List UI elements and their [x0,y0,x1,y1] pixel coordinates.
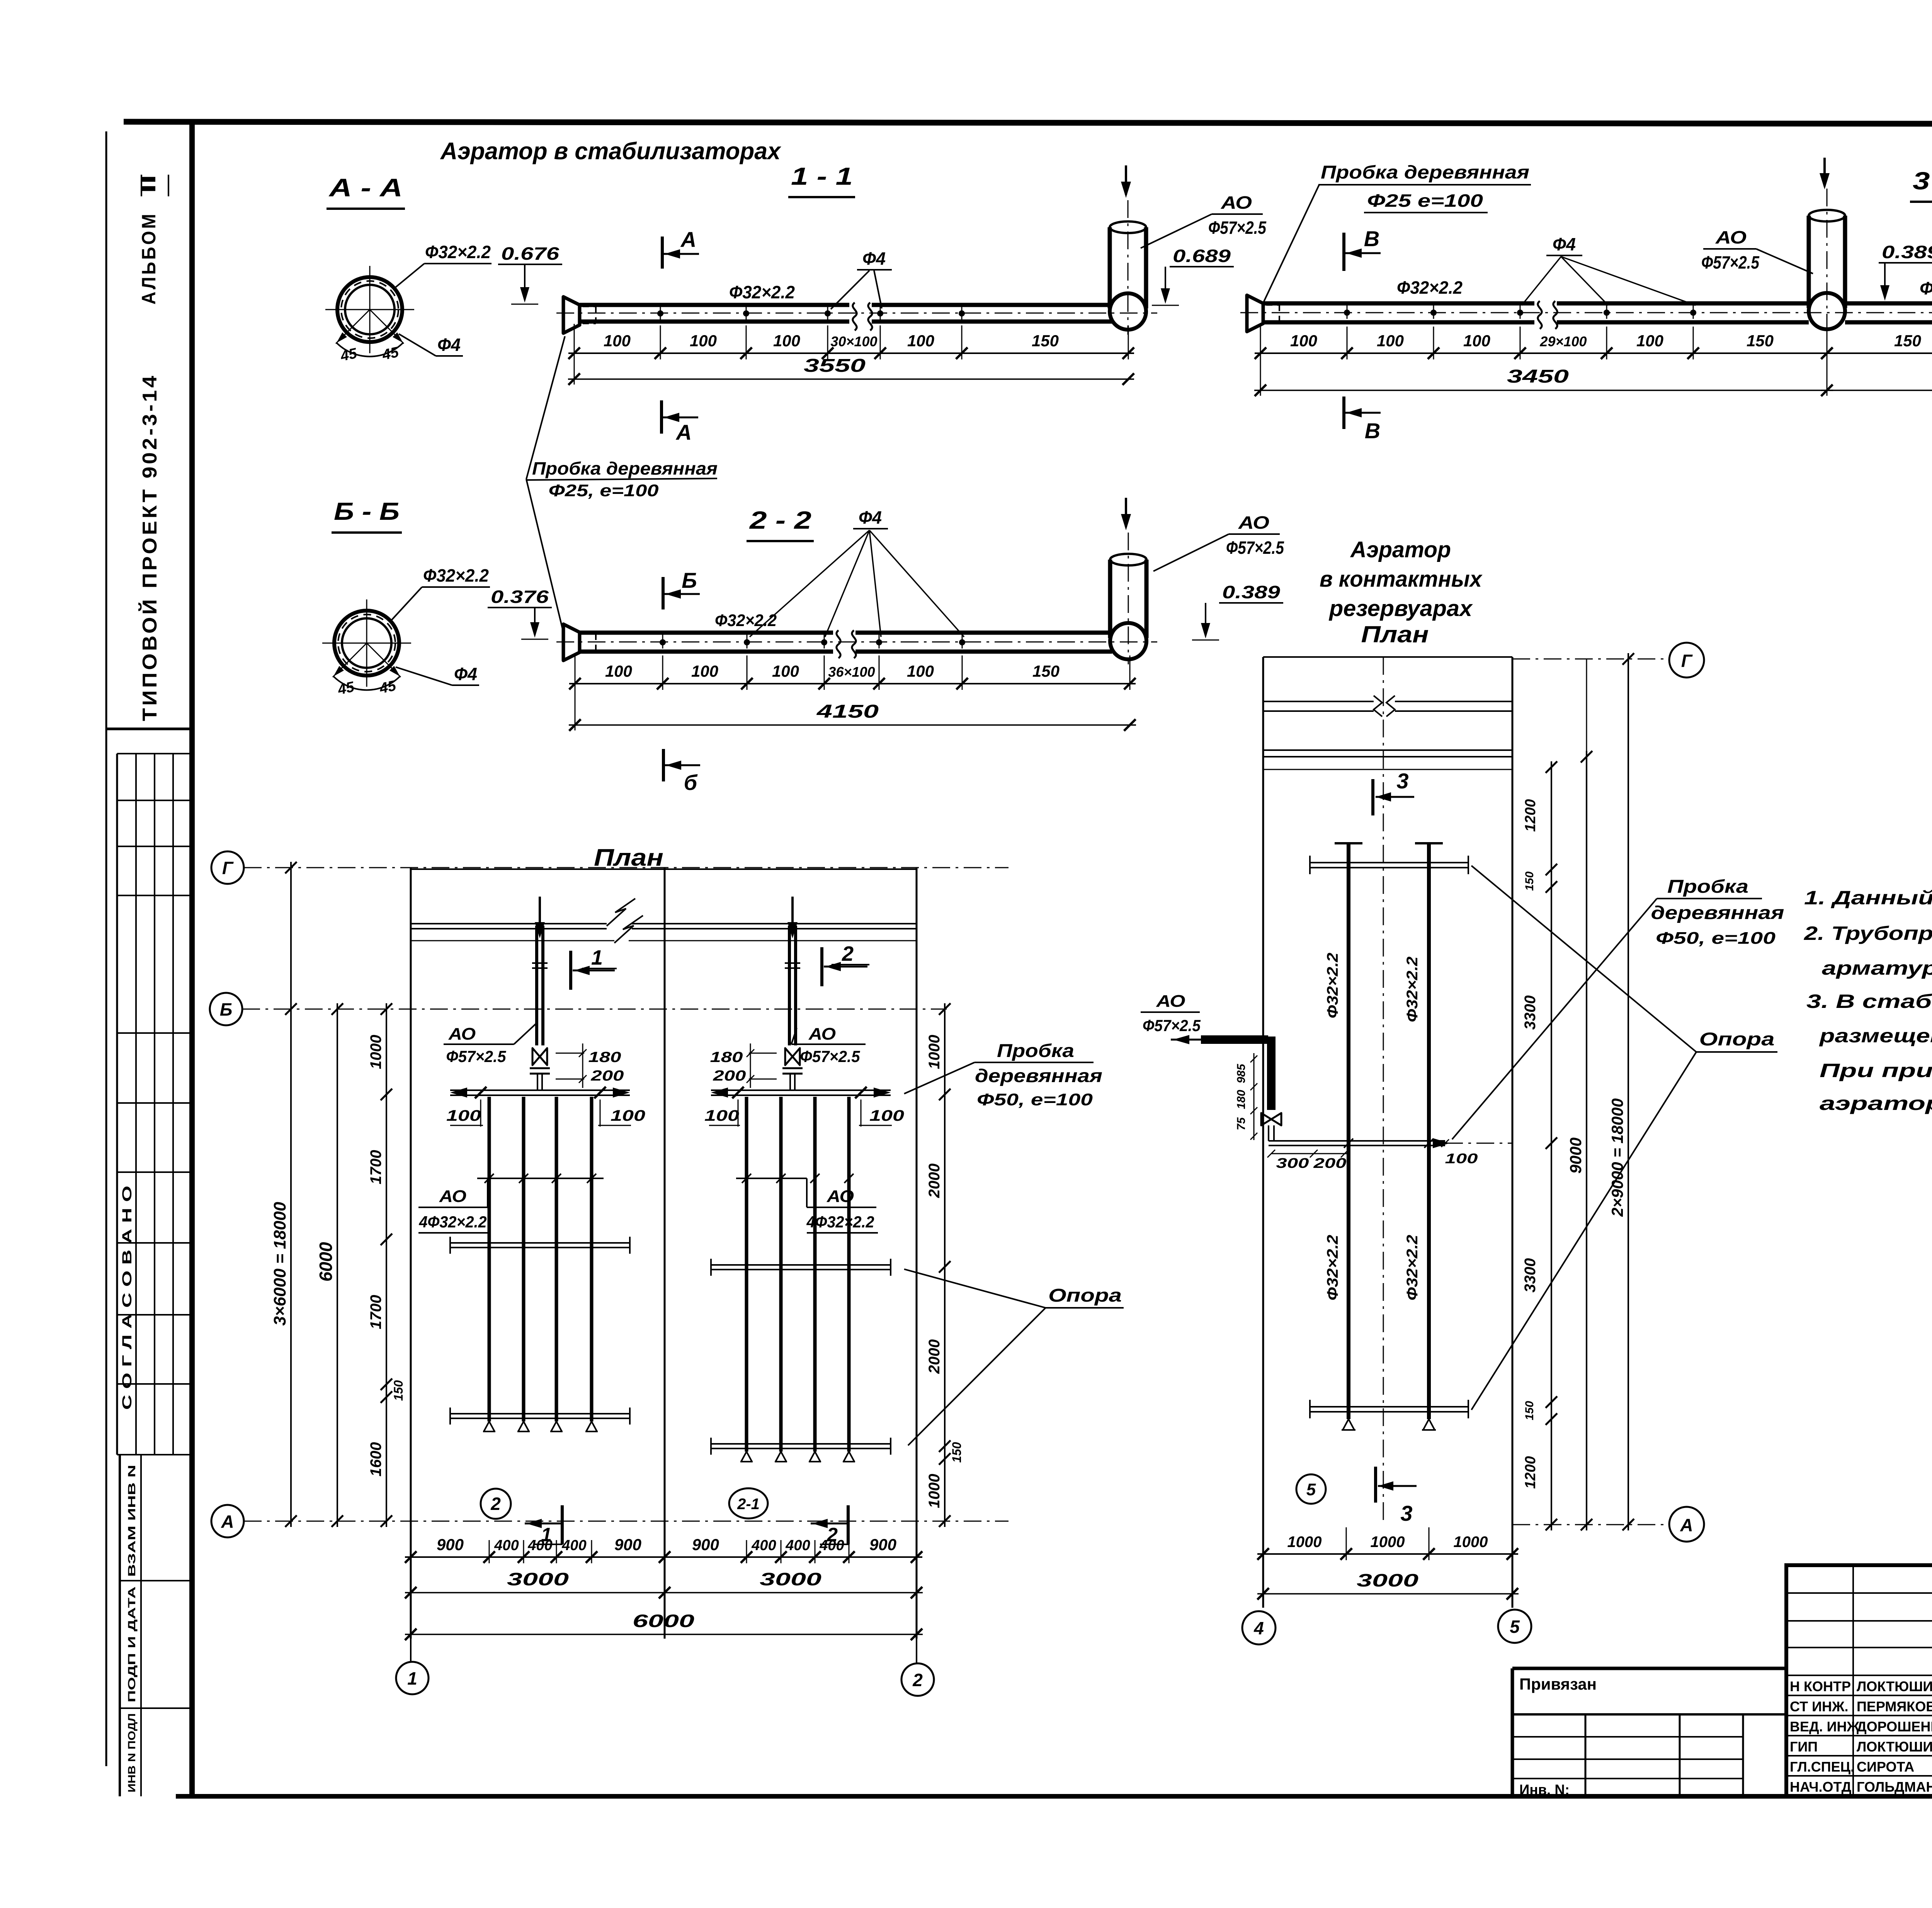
svg-text:0.689: 0.689 [1173,246,1231,266]
support bottom in plan bay [711,1443,891,1445]
air riser АО of 1-1 [1108,227,1112,308]
svg-text:2-1: 2-1 [737,1496,760,1513]
dimension 3550 of 1-1 [568,378,1134,380]
dim chain 1000-1700 left [386,1003,387,1527]
svg-text:6000: 6000 [316,1242,336,1282]
distribution pipe right plan [1269,1140,1445,1142]
svg-text:Пробка деревянная: Пробка деревянная [1321,162,1529,183]
title block signature grid [1852,1565,1854,1796]
small rotated dims 985 180 75 [1253,1053,1255,1140]
tank walls right plan [1262,657,1264,1608]
svg-text:размещение аэраторов без пр: размещение аэраторов без применения вста… [1818,1025,1932,1047]
axis line Г left plan [244,867,1009,868]
svg-text:В: В [1364,226,1379,251]
svg-text:АО: АО [808,1025,836,1043]
svg-text:0.389: 0.389 [1882,242,1932,262]
svg-text:1000: 1000 [926,1474,943,1508]
svg-text:1000: 1000 [367,1035,384,1069]
small dims 300 200 100 [1271,1153,1349,1154]
svg-text:180: 180 [588,1049,621,1065]
axis bubble А left [211,1505,244,1537]
svg-text:Инв. N:: Инв. N: [1519,1782,1570,1798]
sidebar project box [106,728,192,730]
svg-text:4: 4 [1253,1618,1264,1638]
column bubble 4 [1242,1611,1276,1644]
svg-text:Пробка: Пробка [997,1041,1074,1061]
svg-text:6000: 6000 [633,1611,695,1631]
svg-text:2. Трубопроводы крепить к: 2. Трубопроводы крепить к опорам с помощ… [1804,923,1932,944]
svg-text:100: 100 [611,1107,645,1124]
sidebar inventory table [119,1455,121,1796]
aerator pipe 3-3 left segment [1263,301,1534,306]
section marker 3 upper [1371,779,1374,815]
column bubble 2 [916,1639,917,1663]
sidebar approval table [117,753,192,754]
svg-text:400: 400 [527,1537,552,1554]
svg-text:150: 150 [391,1380,405,1401]
section marker В lower [1342,397,1345,429]
svg-text:9000: 9000 [1566,1137,1585,1173]
sheet outer edge line left [105,131,107,1766]
svg-text:4Ф32×2.2: 4Ф32×2.2 [806,1213,874,1231]
svg-text:400: 400 [494,1537,519,1554]
pipe feet in plan bay [741,1452,752,1462]
svg-text:900: 900 [692,1535,719,1554]
svg-text:3450: 3450 [1507,366,1569,387]
axis line Б left plan [242,1009,947,1010]
svg-text:А: А [675,420,692,444]
svg-text:400: 400 [819,1537,844,1554]
section marker А lower [660,400,663,434]
svg-text:900: 900 [869,1535,896,1554]
svg-text:АО: АО [1221,192,1252,213]
inlet valve [1261,1113,1281,1125]
svg-text:1700: 1700 [367,1295,384,1329]
svg-text:150: 150 [1747,332,1774,350]
svg-text:30×100: 30×100 [830,334,877,349]
svg-text:Г: Г [1681,651,1693,671]
svg-text:Опора: Опора [1699,1029,1775,1050]
holes Ф4 on pipe 3-3 [1347,303,1348,319]
svg-text:ВЗАМ ИНВ N: ВЗАМ ИНВ N [126,1465,138,1577]
dimension row of 1-1 [568,352,1134,354]
section marker Б upper [662,577,665,609]
svg-text:2: 2 [842,942,854,965]
svg-text:1000: 1000 [1454,1534,1488,1551]
drop pipes in plan bay [488,1097,491,1421]
svg-text:Ф4: Ф4 [859,507,882,528]
svg-text:150: 150 [1032,662,1060,680]
svg-text:3300: 3300 [1522,996,1539,1030]
svg-text:Аэратор: Аэратор [1350,537,1451,562]
svg-text:5: 5 [1510,1617,1520,1637]
svg-text:2000: 2000 [926,1164,943,1198]
svg-text:ТИПОВОЙ ПРОЕКТ 902-3-14: ТИПОВОЙ ПРОЕКТ 902-3-14 [138,373,161,721]
svg-text:2×9000 = 18000: 2×9000 = 18000 [1608,1098,1626,1217]
svg-text:деревянная: деревянная [1651,903,1784,923]
svg-text:Ф4: Ф4 [437,335,461,355]
bottom dimension row 3000 3000 left plan [405,1592,923,1593]
svg-text:Ф32×2.2: Ф32×2.2 [1324,1235,1341,1300]
svg-text:300: 300 [1276,1155,1309,1171]
svg-text:Б: Б [682,568,697,592]
plug of pipe 1-1 [563,297,580,333]
support top right plan [1310,862,1468,863]
bottom dimension row 1000 right plan [1257,1553,1518,1555]
inlet pipe АО [1201,1035,1268,1044]
svg-text:36×100: 36×100 [828,664,875,680]
svg-text:4150: 4150 [816,701,879,722]
svg-text:1 - 1: 1 - 1 [791,162,853,190]
aerator pipe 3-3 right segment [1845,301,1932,306]
axis bubble Г left [211,851,244,884]
svg-text:3000: 3000 [760,1569,822,1589]
dim chain 1200-3300 right plan [1551,761,1552,1530]
svg-text:Ф4: Ф4 [454,664,477,684]
svg-text:Пробка деревянная: Пробка деревянная [532,458,718,478]
plug of pipe 2-2 [563,624,580,660]
svg-text:Б: Б [220,999,233,1020]
section marker 2 lower [847,1505,850,1544]
upper channel edge lines left plan [411,923,607,924]
svg-text:2: 2 [912,1670,923,1690]
header pipe in plan [711,1089,891,1091]
header pipe in plan [450,1089,630,1091]
svg-text:1: 1 [591,946,603,969]
svg-text:Пробка: Пробка [1667,877,1748,897]
section marker 1 upper [569,951,572,990]
svg-text:3×6000 = 18000: 3×6000 = 18000 [270,1202,289,1326]
aerator pipes right plan [1347,843,1350,1419]
svg-text:Б - Б: Б - Б [334,497,400,525]
svg-text:0.389: 0.389 [1222,582,1281,602]
svg-text:100: 100 [1290,332,1317,350]
dim chain 2x9000 right plan [1628,653,1629,1530]
plug of pipe 3-3 [1247,295,1263,332]
tank number bubble 2-1 [729,1488,768,1518]
svg-text:ГОЛЬДМАН: ГОЛЬДМАН [1857,1779,1932,1795]
svg-text:3300: 3300 [1522,1258,1539,1293]
pipe feet in plan bay [484,1421,495,1431]
dim chain 6000 left [337,1003,338,1527]
svg-text:Ф4: Ф4 [862,248,886,269]
svg-text:АО: АО [439,1187,466,1206]
svg-text:150: 150 [1523,871,1536,891]
svg-text:Ф32×2.2: Ф32×2.2 [1397,277,1463,298]
svg-text:АО: АО [1715,227,1747,247]
svg-text:985: 985 [1235,1064,1248,1083]
dim chain 3x6000 left [290,862,292,1527]
tank number bubble 2 [481,1489,511,1519]
svg-text:2 - 2: 2 - 2 [749,506,811,534]
svg-text:Ф57×2.5: Ф57×2.5 [800,1047,861,1065]
pipe feet right plan [1343,1419,1354,1430]
svg-text:100: 100 [1377,332,1404,350]
svg-text:ПОДП И ДАТА: ПОДП И ДАТА [126,1586,138,1702]
svg-text:1600: 1600 [367,1442,384,1477]
svg-text:Н КОНТР: Н КОНТР [1790,1678,1851,1694]
dim chain 9000 right plan [1586,751,1587,1530]
svg-text:ГИП: ГИП [1790,1739,1818,1755]
wall edge lines right plan [1263,749,1512,751]
axis bubble Б left [210,993,242,1025]
holes Ф4 on pipe 1-1 [660,304,661,320]
svg-text:100: 100 [773,332,800,350]
svg-text:Ф32×2.2: Ф32×2.2 [729,282,795,302]
svg-text:0.676: 0.676 [501,243,560,264]
svg-text:100: 100 [691,662,718,680]
svg-text:ВЕД. ИНЖ: ВЕД. ИНЖ [1790,1719,1860,1734]
svg-text:1000: 1000 [1287,1534,1322,1551]
bottom dimension row 900-400 left plan [405,1556,922,1558]
svg-text:Ф57×2.5: Ф57×2.5 [1701,252,1760,272]
svg-text:А - А: А - А [328,173,403,202]
svg-text:резервуарах: резервуарах [1328,596,1473,621]
svg-text:АО: АО [1156,992,1185,1011]
svg-text:150: 150 [1032,332,1059,350]
svg-text:1000: 1000 [926,1035,943,1069]
svg-text:АО: АО [1238,512,1269,533]
bottom dimension row 3000 right plan [1257,1593,1519,1595]
support bottom in plan bay [450,1413,630,1414]
holes Ф4 on pipe 2-2 [662,633,663,648]
svg-text:180: 180 [710,1049,743,1065]
svg-text:3 - 3: 3 - 3 [1913,167,1932,195]
axis bubble А right [1669,1507,1704,1542]
section marker 3 lower [1374,1467,1377,1503]
svg-text:3. В стабилизаторе (регенера: 3. В стабилизаторе (регенераторе) 2-1 по… [1806,991,1932,1012]
svg-text:3000: 3000 [1357,1570,1419,1590]
svg-text:0.376: 0.376 [491,587,549,607]
bottom dimension row 6000 left plan [405,1634,923,1635]
svg-text:А: А [221,1511,234,1532]
air riser АО of 2-2 [1108,560,1112,638]
svg-text:1. Данный чертеж см. совме: 1. Данный чертеж см. совместно с листами… [1804,887,1932,909]
svg-text:150: 150 [1894,332,1921,350]
support mid in plan bay [711,1264,891,1266]
svg-text:Ф50, е=100: Ф50, е=100 [1656,929,1776,948]
svg-text:в контактных: в контактных [1320,567,1483,592]
svg-text:100: 100 [1636,332,1663,350]
svg-text:Ф4: Ф4 [1553,234,1576,254]
svg-text:100: 100 [446,1107,481,1124]
svg-text:200: 200 [590,1068,624,1084]
svg-text:ГЛ.СПЕЦ.: ГЛ.СПЕЦ. [1790,1759,1854,1775]
riser pipe in plan bay [788,926,791,1045]
air riser АО of 3-3 [1807,216,1811,308]
flow arrow above riser 2-2 [1125,498,1127,527]
pipe cross-section Б-Б [334,611,399,676]
svg-text:арматуры Ф 8 мм.: арматуры Ф 8 мм. [1822,957,1932,979]
svg-text:СИРОТА: СИРОТА [1857,1759,1914,1775]
svg-text:3000: 3000 [507,1569,569,1589]
svg-text:В: В [1365,419,1380,443]
svg-text:Ф25 е=100: Ф25 е=100 [1367,191,1483,211]
svg-text:100: 100 [604,332,631,350]
svg-text:ДОРОШЕНКО: ДОРОШЕНКО [1857,1719,1932,1734]
svg-text:180: 180 [1235,1090,1248,1109]
axis line Г right plan [1512,659,1669,660]
svg-text:1200: 1200 [1522,1456,1539,1489]
svg-text:Ф57×2.5: Ф57×2.5 [446,1047,507,1065]
svg-text:Ф57×2.5: Ф57×2.5 [1226,538,1284,558]
tank number bubble 5 inner [1296,1474,1326,1504]
axis bubble Г right [1669,643,1704,677]
svg-text:Ф57×2.5: Ф57×2.5 [1143,1016,1201,1035]
svg-text:Ф50, е=100: Ф50, е=100 [977,1090,1093,1109]
svg-text:АЛЬБОМ: АЛЬБОМ [138,212,160,305]
axis line А left plan [244,1521,1009,1522]
tank walls left plan [410,868,412,1639]
aerator pipe 1-1 [580,303,849,307]
svg-text:100: 100 [869,1107,904,1124]
svg-text:Ф32×2.2: Ф32×2.2 [1324,953,1341,1018]
svg-text:3: 3 [1396,769,1408,793]
section marker 2 upper [820,947,823,986]
column bubble 1 [410,1639,412,1662]
svg-text:СТ ИНЖ.: СТ ИНЖ. [1790,1699,1849,1714]
dimension row of 3-3 [1255,352,1833,354]
riser tee and valve in plan [785,1048,800,1065]
svg-text:1700: 1700 [367,1150,384,1185]
svg-text:4Ф32×2.2: 4Ф32×2.2 [419,1213,487,1231]
svg-text:900: 900 [437,1535,464,1554]
axis line А right plan [1512,1524,1669,1525]
svg-text:400: 400 [785,1537,810,1554]
svg-text:Ф25, е=100: Ф25, е=100 [549,481,659,500]
svg-text:Ф32×2.2: Ф32×2.2 [425,242,491,262]
leader lines of Пробка left [526,336,565,479]
svg-text:200: 200 [1313,1155,1346,1171]
svg-text:Ф32×2.2: Ф32×2.2 [1404,1235,1421,1300]
svg-text:200: 200 [713,1068,746,1084]
pipe cross-section А-А [337,277,402,342]
svg-text:НАЧ.ОТД: НАЧ.ОТД [1790,1779,1851,1795]
title block frame [1786,1565,1932,1796]
riser tee and valve in plan [532,1048,547,1065]
svg-text:100: 100 [1463,332,1490,350]
svg-text:ЛОКТЮШИН: ЛОКТЮШИН [1857,1678,1932,1694]
tank centerline right plan [1383,657,1384,1525]
svg-text:100: 100 [772,662,799,680]
svg-text:900: 900 [614,1535,641,1554]
leader line of Пробка top [1264,185,1319,302]
svg-text:С О Г Л А С О В А Н О: С О Г Л А С О В А Н О [120,1186,134,1410]
svg-text:Г: Г [222,858,234,878]
svg-text:1: 1 [407,1668,417,1688]
section marker А upper [661,237,664,269]
svg-text:150: 150 [1523,1401,1536,1420]
column bubble 5 [1498,1610,1531,1643]
svg-text:400: 400 [751,1537,776,1554]
svg-text:АО: АО [827,1187,854,1206]
svg-text:АО: АО [448,1025,476,1043]
svg-text:75: 75 [1235,1117,1248,1130]
svg-text:1200: 1200 [1522,799,1539,832]
break band right plan [1263,701,1374,702]
svg-text:100: 100 [704,1107,739,1124]
svg-text:2: 2 [490,1494,501,1514]
svg-text:деревянная: деревянная [975,1066,1102,1086]
dimension 3450 right of 3-3 [1821,390,1932,391]
svg-text:При применении вставки длин: При применении вставки длиной 3м размеще… [1820,1060,1932,1081]
support bottom right plan [1310,1406,1468,1408]
flow arrow above riser 1-1 [1125,165,1127,195]
drawing frame border [124,122,1932,124]
riser pipe in plan bay [535,926,538,1045]
svg-text:Ф57×2.5: Ф57×2.5 [1208,218,1267,238]
svg-text:Опора: Опора [1048,1285,1122,1306]
svg-text:ИНВ N ПОДЛ: ИНВ N ПОДЛ [126,1713,138,1792]
section marker Б lower [662,749,665,781]
svg-text:100: 100 [1445,1151,1478,1166]
svg-text:100: 100 [907,662,934,680]
svg-text:100: 100 [907,332,934,350]
svg-text:А: А [680,227,696,252]
svg-text:5: 5 [1306,1480,1316,1499]
drop pipes in plan bay [745,1097,748,1452]
dimension 3450 left of 3-3 [1254,390,1833,391]
svg-text:Ф32×2.2: Ф32×2.2 [1920,278,1932,298]
svg-text:План: План [1361,621,1429,647]
svg-text:400: 400 [561,1537,586,1554]
svg-text:ПЕРМЯКОВА: ПЕРМЯКОВА [1857,1699,1932,1714]
support mid in plan bay [450,1242,630,1244]
svg-text:3550: 3550 [804,356,866,376]
svg-text:150: 150 [950,1442,964,1463]
dimension row of 2-2 [569,683,1136,684]
section marker В upper [1342,233,1345,271]
dim chain 1000-2000 right of bay 2-1 [944,1003,946,1527]
svg-text:100: 100 [690,332,717,350]
flow arrow above riser 3-3 [1823,158,1826,186]
svg-text:б: б [684,770,698,795]
svg-text:29×100: 29×100 [1539,334,1587,349]
svg-text:ЛОКТЮШИН: ЛОКТЮШИН [1857,1739,1932,1755]
svg-text:1000: 1000 [1371,1534,1405,1551]
svg-text:3: 3 [1400,1501,1412,1525]
svg-text:Аэратор в стабилизаторах: Аэратор в стабилизаторах [440,138,781,165]
svg-text:Ф32×2.2: Ф32×2.2 [1404,957,1421,1022]
registration table Привязан [1512,1667,1786,1670]
svg-text:Привязан: Привязан [1519,1675,1597,1693]
section marker 1 lower [561,1505,564,1544]
svg-text:100: 100 [605,662,632,680]
svg-text:А: А [1680,1515,1693,1535]
aerator pipe 2-2 [580,631,833,635]
svg-text:аэраторов см. на листе 8.: аэраторов см. на листе 8. [1820,1093,1932,1114]
dimension 4150 of 2-2 [569,724,1136,726]
svg-text:Ф32×2.2: Ф32×2.2 [423,565,489,586]
svg-text:2000: 2000 [926,1340,943,1374]
